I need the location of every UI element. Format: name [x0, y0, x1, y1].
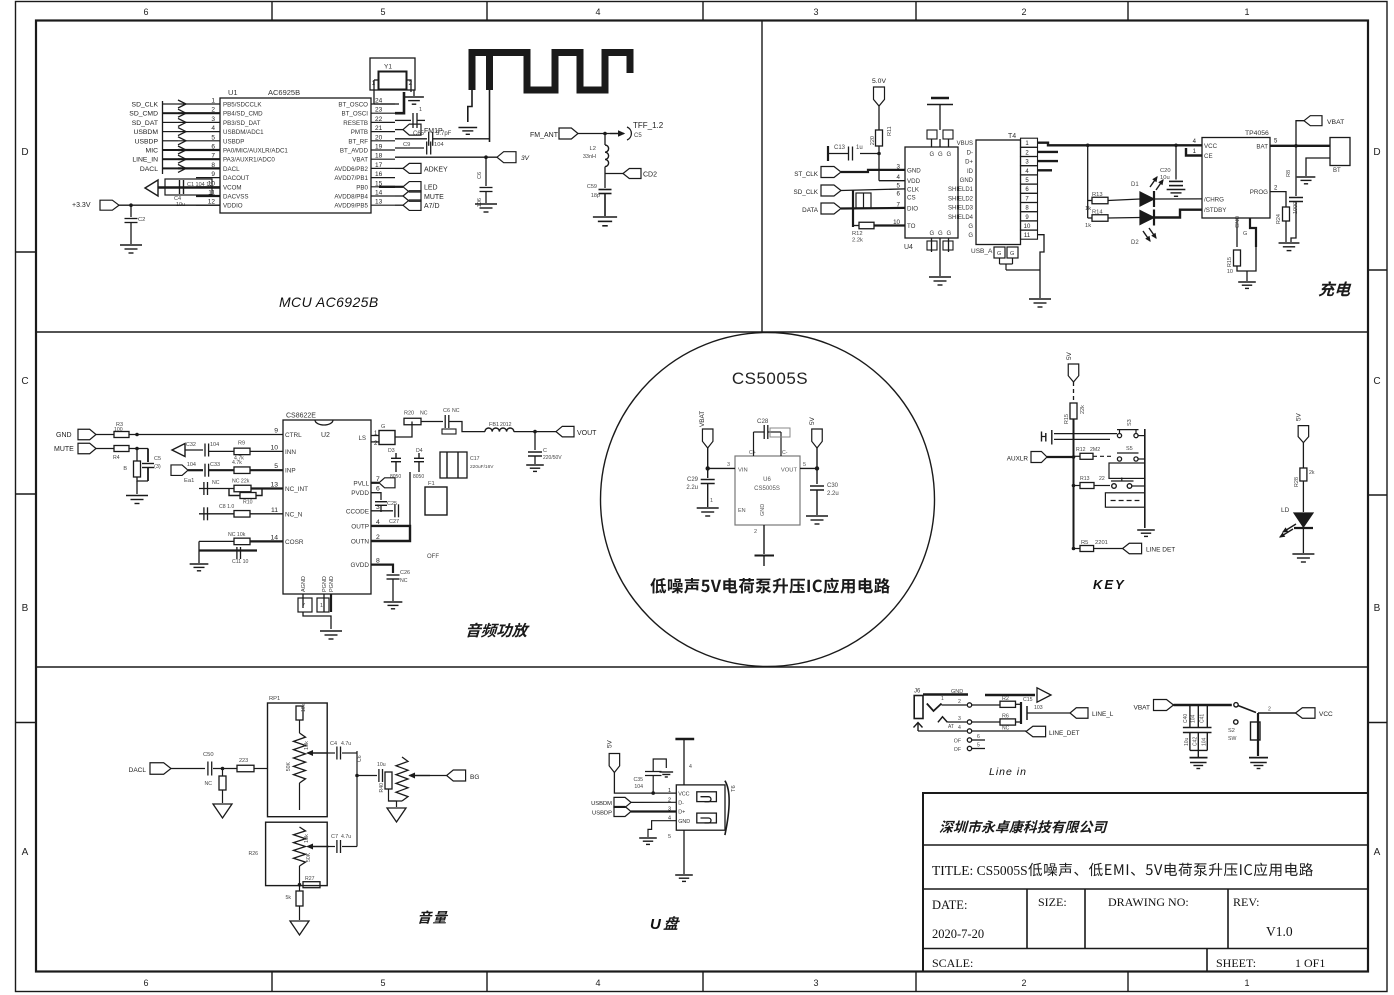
diode D3 — [395, 453, 397, 458]
svg-text:C1 104 13: C1 104 13 — [187, 182, 212, 188]
svg-text:G: G — [947, 152, 952, 158]
svg-text:1 OF1: 1 OF1 — [1295, 956, 1325, 970]
antenna feed stub wire — [486, 53, 493, 91]
svg-text:C: C — [21, 376, 28, 387]
CS5005S feature circle — [601, 333, 935, 667]
net flag DACL input — [171, 465, 188, 476]
chassis bar ground — [755, 555, 775, 557]
NC_N row — [199, 513, 234, 515]
LS connector box — [371, 435, 379, 437]
svg-text:R12: R12 — [1076, 447, 1086, 453]
capacitor C65 3.7pF at BT_RF — [395, 138, 427, 140]
svg-text:2012: 2012 — [500, 422, 512, 428]
svg-text:C4: C4 — [330, 741, 337, 747]
battery connector J3 — [1330, 138, 1350, 166]
svg-text:R26: R26 — [248, 851, 258, 857]
svg-text:DACL: DACL — [140, 166, 158, 173]
svg-text:GND: GND — [678, 819, 690, 825]
svg-text:CS5005S: CS5005S — [732, 369, 808, 388]
right potentiometer RP3 — [396, 757, 408, 801]
svg-text:OUTN: OUTN — [351, 539, 369, 546]
svg-text:1k: 1k — [1085, 223, 1091, 229]
T4 data stubs — [1038, 151, 1059, 153]
wire +3.3V to U1 pin12 — [119, 204, 220, 206]
svg-text:C6: C6 — [357, 755, 363, 762]
svg-text:6: 6 — [143, 7, 148, 17]
svg-text:GND: GND — [1235, 216, 1241, 228]
svg-text:B: B — [1374, 603, 1381, 614]
svg-text:U6: U6 — [763, 477, 771, 483]
potentiometer RP1 element — [294, 733, 306, 783]
svg-text:USBDM: USBDM — [591, 801, 612, 807]
svg-text:OFF: OFF — [427, 554, 439, 560]
circle caption 低噪声5V电荷泵升压IC应用电路 — [650, 578, 890, 594]
inductor FB1 — [485, 428, 514, 432]
svg-text:D4: D4 — [416, 448, 423, 454]
wire D2 cathode to STDBY — [1155, 210, 1202, 218]
svg-text:S5: S5 — [1126, 446, 1133, 452]
svg-text:1: 1 — [419, 107, 422, 113]
svg-text:223: 223 — [239, 758, 248, 764]
svg-text:MUTE: MUTE — [424, 194, 444, 201]
ground for C35 — [659, 771, 673, 773]
svg-text:CS: CS — [907, 195, 916, 202]
svg-text:10: 10 — [1024, 224, 1031, 230]
svg-text:R10: R10 — [243, 500, 253, 506]
svg-text:CE: CE — [1204, 153, 1213, 160]
ground bottom charging — [1238, 281, 1256, 283]
svg-text:LINE_DET: LINE_DET — [1049, 730, 1080, 737]
section title 音量 — [419, 910, 448, 923]
IC U6 CS5005S body — [735, 456, 800, 525]
svg-text:CS8622E: CS8622E — [286, 413, 316, 420]
net flag FM1P at pin21 — [395, 129, 403, 131]
resistor R40 — [385, 772, 392, 789]
svg-text:220: 220 — [870, 136, 876, 145]
resistor R14 — [1088, 217, 1092, 219]
USB top power rail — [675, 738, 694, 741]
capacitor C20 at VCC — [1174, 144, 1178, 148]
svg-text:PGND: PGND — [329, 576, 335, 592]
svg-text:VIN: VIN — [738, 468, 748, 474]
potentiometer RP2 element — [294, 827, 306, 866]
net flag LINE_DET (jack) — [1026, 726, 1046, 737]
wire to detect triangle (thick) — [985, 694, 1035, 696]
svg-text:CD2: CD2 — [643, 172, 657, 179]
net flag VOUT — [556, 426, 574, 437]
resistor R13k row C — [1074, 485, 1081, 487]
svg-text:5V: 5V — [1066, 351, 1073, 360]
svg-text:G: G — [930, 152, 935, 158]
net flag LINE_DET — [1123, 543, 1142, 554]
svg-text:VBUS: VBUS — [957, 141, 973, 147]
DAC output triangle symbol — [145, 180, 158, 196]
jack sleeve wire (thick) — [923, 693, 968, 695]
svg-text:5: 5 — [380, 7, 385, 17]
T4 mounting pads — [994, 247, 1005, 258]
svg-text:C7: C7 — [331, 834, 338, 840]
wire C30 to ground — [816, 490, 818, 515]
svg-text:103: 103 — [1034, 705, 1043, 711]
svg-text:S2: S2 — [1228, 728, 1235, 734]
row A capacitor — [1054, 433, 1074, 435]
wire BAT to battery connector — [1270, 145, 1330, 147]
capacitor C33 — [188, 469, 203, 471]
ground COSR — [190, 563, 209, 565]
svg-text:AVDD9/PB5: AVDD9/PB5 — [334, 203, 368, 210]
RP3 wiper arrow fed from BG flag — [410, 775, 431, 777]
svg-text:C27: C27 — [389, 519, 399, 525]
capacitor C35 — [651, 791, 655, 795]
svg-text:TO: TO — [907, 223, 916, 230]
LINE_DET row from jack — [918, 730, 967, 732]
ground input — [697, 507, 719, 509]
svg-text:AGND: AGND — [301, 576, 307, 592]
svg-text:USB_A: USB_A — [971, 248, 993, 255]
svg-text:DATE:: DATE: — [932, 898, 967, 912]
svg-text:SIZE:: SIZE: — [1038, 895, 1067, 909]
capacitor C16 at output — [534, 432, 536, 450]
svg-text:1: 1 — [710, 498, 713, 504]
svg-text:NC: NC — [205, 781, 213, 787]
svg-text:2020-7-20: 2020-7-20 — [932, 927, 984, 941]
RP3 bottom bracket — [389, 789, 403, 801]
svg-text:10u: 10u — [377, 762, 386, 768]
potentiometer RP1 box — [268, 703, 328, 817]
capacitor C1 block near pin10 — [165, 179, 212, 195]
svg-text:10: 10 — [1227, 269, 1233, 275]
wires to audio ground — [137, 477, 148, 481]
svg-text:NC_INT: NC_INT — [285, 486, 308, 493]
capacitor C3 at RESETB — [395, 119, 411, 121]
svg-text:2: 2 — [754, 529, 757, 535]
wire 5V to USB VCC — [614, 773, 676, 794]
ground under U2 — [320, 630, 342, 632]
svg-text:C6: C6 — [477, 172, 483, 179]
RP2 bottom resistors — [299, 866, 301, 891]
net flags LED MUTE A7D — [395, 186, 403, 188]
svg-text:C: C — [543, 448, 547, 454]
wire C15 to LINE_L flag — [1027, 712, 1070, 714]
svg-text:7: 7 — [302, 603, 305, 609]
svg-text:104: 104 — [634, 784, 643, 790]
wire C10 to ground — [485, 192, 487, 204]
resistor R3 — [96, 434, 114, 436]
svg-text:MIC: MIC — [146, 148, 159, 155]
right zone tick marks — [1368, 269, 1387, 271]
svg-text:1: 1 — [1244, 978, 1249, 988]
wires to charging ground — [1237, 247, 1256, 271]
svg-text:104: 104 — [434, 142, 444, 148]
svg-text:PGND: PGND — [322, 576, 328, 592]
svg-text:C5: C5 — [154, 456, 161, 462]
svg-text:CLK: CLK — [907, 186, 920, 193]
USB GND wire — [648, 821, 676, 837]
bottom zone tick marks — [271, 972, 273, 992]
analog ground triangle 1 — [213, 804, 232, 818]
svg-text:10k: 10k — [304, 834, 310, 843]
net flag BG — [447, 770, 466, 781]
svg-text:A: A — [1374, 847, 1381, 858]
audio amp IC U2 body — [283, 420, 371, 594]
svg-text:R15: R15 — [1064, 414, 1070, 424]
cap C11 under R18 — [198, 541, 200, 550]
svg-text:TFF_1.2: TFF_1.2 — [633, 121, 664, 130]
svg-text:U1: U1 — [228, 88, 238, 97]
svg-text:R2: R2 — [1002, 696, 1009, 702]
wire C59 to ground — [604, 194, 606, 217]
svg-text:GND: GND — [960, 178, 974, 184]
svg-text:C11 10: C11 10 — [232, 559, 248, 565]
electrolytic cap C5 — [147, 449, 149, 463]
U4 bottom pins — [931, 238, 933, 252]
svg-text:G: G — [1243, 231, 1247, 237]
wire to VOUT flag — [514, 431, 556, 433]
svg-text:AVDD6/PB2: AVDD6/PB2 — [334, 166, 368, 173]
ground under U4 — [929, 276, 951, 278]
svg-text:D: D — [21, 147, 28, 158]
svg-text:OUTP: OUTP — [351, 523, 369, 530]
svg-text:R4: R4 — [113, 455, 120, 461]
svg-text:5V: 5V — [607, 739, 614, 748]
svg-text:1k: 1k — [1085, 206, 1091, 212]
svg-text:D-: D- — [967, 150, 973, 156]
svg-text:50K: 50K — [286, 761, 292, 771]
wire T4 VBUS to U5 VCC (thick) — [1038, 143, 1203, 146]
svg-text:NC: NC — [452, 408, 460, 414]
wire LED to ground — [1302, 528, 1304, 553]
NC_INT row network — [199, 488, 234, 490]
power switch S2 — [1234, 703, 1238, 707]
resistor R4 — [96, 448, 114, 450]
resistor R20 — [404, 418, 421, 425]
svg-text:FB1: FB1 — [489, 422, 499, 428]
svg-text:PVLL: PVLL — [353, 480, 369, 487]
svg-text:NC 22k: NC 22k — [232, 479, 250, 485]
svg-text:U4: U4 — [904, 244, 913, 251]
svg-text:CTRL: CTRL — [285, 432, 302, 439]
svg-text:1: 1 — [320, 603, 323, 609]
net flag VCC — [1296, 708, 1316, 719]
capacitor C59 — [599, 189, 612, 191]
svg-text:R11: R11 — [887, 126, 893, 136]
net flag VBAT — [1296, 121, 1304, 146]
svg-text:NC: NC — [212, 480, 220, 486]
svg-text:D3: D3 — [388, 448, 395, 454]
svg-text:GVDD: GVDD — [351, 562, 370, 569]
svg-text:3: 3 — [727, 462, 730, 468]
svg-text:8050: 8050 — [390, 474, 401, 480]
antenna ground — [458, 127, 477, 129]
svg-text:T4: T4 — [1008, 133, 1016, 140]
svg-text:11: 11 — [271, 507, 278, 514]
svg-text:G: G — [1010, 251, 1014, 257]
svg-text:5: 5 — [803, 462, 806, 468]
ground under C10 — [475, 203, 497, 205]
resistor R5 bottom — [1072, 547, 1076, 551]
svg-text:6: 6 — [897, 191, 901, 198]
svg-text:6: 6 — [977, 734, 980, 740]
ground for T4 shield — [1029, 298, 1051, 300]
wire C22 to ground — [1291, 202, 1296, 243]
svg-text:KEY: KEY — [1093, 577, 1126, 592]
svg-text:1u: 1u — [856, 145, 863, 151]
svg-text:6: 6 — [143, 978, 148, 988]
svg-text:4: 4 — [958, 725, 961, 731]
svg-text:USBDP: USBDP — [223, 138, 244, 145]
svg-text:INN: INN — [285, 449, 296, 456]
resistor R13 — [1088, 200, 1092, 202]
svg-text:C33: C33 — [210, 462, 220, 468]
CE stub — [1186, 148, 1202, 156]
svg-text:R9: R9 — [238, 441, 245, 447]
capacitor C25 at PVDD — [371, 493, 381, 500]
PCB antenna meander (thick) — [472, 53, 630, 91]
svg-text:A: A — [22, 847, 29, 858]
wire S3 to right bus — [1138, 435, 1145, 437]
svg-text:22k: 22k — [1080, 405, 1086, 414]
svg-text:FM_ANT: FM_ANT — [530, 132, 559, 139]
resistor network box — [856, 193, 871, 208]
ground under C2 — [120, 244, 142, 246]
svg-text:104: 104 — [210, 442, 219, 448]
svg-text:5.0V: 5.0V — [872, 78, 886, 85]
svg-text:LS: LS — [359, 436, 366, 442]
wire R3 to U2 CTRL — [129, 434, 283, 436]
svg-text:C8 1.0: C8 1.0 — [219, 504, 234, 510]
svg-text:LINE_IN: LINE_IN — [132, 157, 158, 164]
U4 top pins — [931, 139, 933, 147]
svg-text:33nH: 33nH — [583, 154, 596, 160]
svg-text:A7/D: A7/D — [424, 203, 440, 210]
svg-text:106: 106 — [477, 198, 483, 207]
wire ST_CLK to U4 — [841, 170, 905, 172]
svg-text:Ea1: Ea1 — [184, 478, 194, 484]
svg-text:1: 1 — [668, 788, 671, 794]
svg-text:5: 5 — [380, 978, 385, 988]
wire AUXL to bus — [1047, 456, 1074, 458]
svg-text:J6: J6 — [914, 689, 921, 695]
svg-text:10: 10 — [270, 444, 278, 451]
svg-text:SW: SW — [1228, 736, 1236, 742]
svg-text:B: B — [22, 603, 29, 614]
svg-text:2201: 2201 — [1095, 540, 1108, 546]
svg-text:C29: C29 — [687, 477, 699, 483]
svg-text:DACVSS: DACVSS — [223, 194, 248, 201]
svg-text:SD_CMD: SD_CMD — [129, 111, 158, 118]
svg-text:C28: C28 — [757, 418, 769, 425]
svg-text:2: 2 — [1021, 7, 1026, 17]
U5 bottom pin wires — [1236, 218, 1238, 247]
ground GVDD — [384, 601, 403, 603]
jack tip contact (V) — [927, 704, 942, 712]
svg-text:5V: 5V — [809, 416, 816, 425]
svg-text:5V: 5V — [1296, 412, 1303, 421]
svg-text:2.2u: 2.2u — [827, 491, 839, 497]
svg-text:11: 11 — [1024, 233, 1031, 239]
title block row line 3 — [923, 948, 1368, 950]
wire R7 to INP — [250, 469, 283, 471]
svg-text:VCOM: VCOM — [223, 184, 242, 191]
resistor R15k — [1070, 403, 1077, 419]
svg-text:G: G — [947, 231, 952, 237]
wire triangle to U1 — [158, 186, 220, 188]
svg-text:2: 2 — [1268, 707, 1271, 713]
svg-text:PMTB: PMTB — [351, 129, 368, 136]
switch body box — [1257, 713, 1259, 756]
svg-text:SHEET:: SHEET: — [1216, 956, 1256, 970]
svg-text:DATA: DATA — [802, 207, 819, 214]
svg-text:ST_CLK: ST_CLK — [794, 171, 819, 178]
wire DATA to U4 DIO — [841, 207, 905, 210]
svg-text:VOUT: VOUT — [781, 468, 798, 474]
svg-text:D1: D1 — [1131, 182, 1139, 188]
ground USB pin4 — [639, 837, 657, 839]
input triangle symbol — [172, 444, 185, 457]
svg-text:4: 4 — [595, 7, 600, 17]
svg-text:AC6925B: AC6925B — [268, 88, 300, 97]
wire S2 to VCC flag — [1258, 712, 1296, 714]
svg-text:VBAT: VBAT — [1327, 119, 1344, 126]
svg-text:RP1: RP1 — [269, 696, 280, 702]
svg-text:G: G — [381, 424, 385, 430]
ground PROG/C22 — [1279, 242, 1300, 244]
CCODE capacitor C27 — [371, 510, 393, 512]
svg-text:F1: F1 — [428, 481, 435, 487]
battery connector ground — [1306, 158, 1330, 176]
wire D1 cathode to CHRG — [1155, 198, 1202, 200]
switch S5 — [1117, 457, 1121, 461]
svg-text:USBDM/ADC1: USBDM/ADC1 — [223, 129, 264, 136]
svg-text:C5: C5 — [634, 133, 642, 139]
ground under USB — [675, 874, 693, 876]
svg-text:R20: R20 — [404, 411, 414, 417]
vertical divider of top band — [761, 21, 763, 333]
company name 深圳市永卓康科技有限公司 — [940, 820, 1108, 833]
ground LED — [1292, 553, 1314, 555]
svg-text:D+: D+ — [965, 160, 973, 166]
svg-text:NC: NC — [400, 578, 408, 584]
svg-text:5k: 5k — [286, 895, 292, 901]
svg-text:C35: C35 — [633, 777, 643, 783]
MCU U1 AC6925B chip body — [220, 98, 371, 213]
svg-text:DACL: DACL — [129, 767, 147, 774]
svg-text:G: G — [968, 224, 973, 230]
svg-text:R8: R8 — [1286, 170, 1292, 177]
svg-text:USBDP: USBDP — [135, 138, 159, 145]
svg-text:3: 3 — [813, 978, 818, 988]
svg-text:D-: D- — [678, 801, 684, 807]
svg-text:C-: C- — [782, 450, 788, 456]
VBAT rail wire — [1174, 704, 1232, 707]
svg-text:PVDD: PVDD — [351, 490, 369, 497]
svg-text:5: 5 — [977, 743, 980, 749]
svg-text:VBAT: VBAT — [699, 411, 706, 427]
wire to AGND triangle 3 — [299, 906, 301, 920]
svg-text:3: 3 — [958, 716, 961, 722]
wire C2 to ground — [130, 223, 132, 245]
wire R9 to INN — [250, 450, 283, 452]
resistor R22 — [213, 768, 237, 770]
svg-text:PROG: PROG — [1250, 189, 1268, 196]
svg-text:D: D — [1373, 147, 1380, 158]
svg-text:R40: R40 — [379, 783, 385, 793]
svg-text:OF: OF — [954, 747, 961, 753]
wire R5 to LINE_DET flag — [1094, 548, 1123, 550]
U1 left pin wires with input chevrons — [178, 103, 220, 105]
svg-text:SHIELD4: SHIELD4 — [948, 215, 974, 221]
svg-text:D2: D2 — [1131, 240, 1139, 246]
